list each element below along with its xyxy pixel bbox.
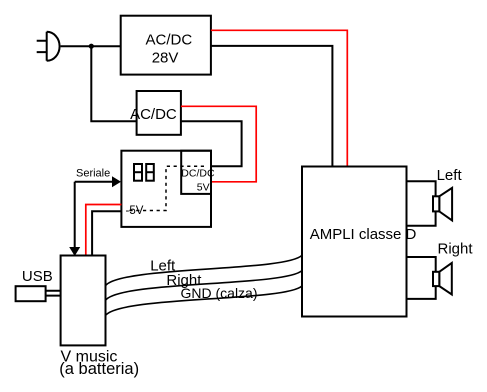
svg-text:Left: Left: [437, 167, 463, 184]
wire GND calza: [106, 286, 303, 316]
wire loop to right speaker: [407, 257, 436, 299]
svg-text:Seriale: Seriale: [76, 167, 110, 179]
wire plug to AC/DC 28V: [61, 45, 121, 47]
dashed -5V net: [129, 166, 204, 210]
svg-text:28V: 28V: [152, 50, 179, 67]
wire black U1 to AMPLI: [211, 46, 333, 167]
svg-text:-5V: -5V: [126, 205, 144, 217]
svg-text:AC/DC: AC/DC: [130, 106, 177, 123]
wire red +28V U1 to AMPLI: [211, 30, 347, 166]
arrowhead down: [69, 247, 80, 256]
wire Seriale to U3 with arrow: [75, 181, 113, 183]
wire red 5V U3 to V music: [86, 205, 122, 256]
mains plug P1: [37, 32, 60, 61]
svg-text:USB: USB: [22, 268, 53, 285]
label V music (a batteria): [59, 349, 139, 379]
wire loop to left speaker: [407, 181, 436, 226]
speaker LS1: [433, 188, 452, 221]
USB connector J3: [16, 286, 61, 301]
svg-text:AMPLI classe D: AMPLI classe D: [310, 226, 417, 243]
wire Left audio: [106, 255, 303, 285]
DC/DC 5V module: [181, 151, 215, 194]
svg-text:AC/DC: AC/DC: [146, 32, 193, 49]
svg-text:Right: Right: [438, 240, 474, 257]
junction node: [89, 44, 94, 49]
AC/DC converter U2: [130, 91, 181, 135]
wire Right audio: [106, 271, 303, 301]
wire red U2 to DC/DC U3: [181, 106, 256, 182]
interface board U3: [121, 151, 211, 227]
AC/DC 28V converter U1: [121, 16, 211, 75]
wire junction down to AC/DC #2: [91, 46, 136, 121]
speaker LS2: [433, 263, 452, 295]
wire Seriale down to V music with arrow: [74, 182, 76, 247]
svg-text:GND (calza): GND (calza): [181, 285, 258, 301]
wire black U2 to DC/DC U3: [181, 121, 242, 166]
connector J2: [146, 164, 154, 181]
svg-text:(a batteria): (a batteria): [59, 360, 139, 378]
svg-text:5V: 5V: [197, 182, 210, 194]
wire black -5V U3 to V music: [92, 211, 121, 255]
svg-text:DC/DC: DC/DC: [181, 167, 215, 179]
connector J1: [134, 164, 142, 181]
class D amplifier U4: [302, 167, 417, 317]
arrowhead right: [112, 176, 121, 187]
V music player module: [61, 256, 106, 346]
